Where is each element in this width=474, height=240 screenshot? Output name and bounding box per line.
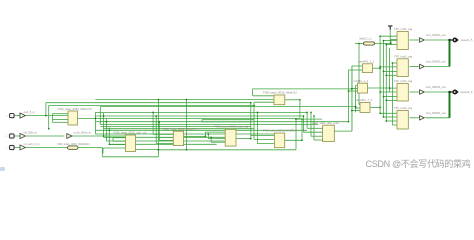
wire [384, 70, 397, 72]
wire [359, 104, 360, 106]
wire [355, 86, 357, 113]
junction [351, 110, 353, 112]
wire [102, 156, 158, 158]
junction [379, 35, 381, 37]
wire [156, 143, 173, 145]
wire (joined output net, thick) [449, 92, 451, 118]
output pin swout1_5 [449, 39, 453, 41]
junction [448, 39, 451, 42]
wire [95, 129, 307, 131]
junction [383, 116, 385, 118]
logic cell U2 FSM_state_0016_dup_cnt [126, 135, 136, 152]
wire [392, 124, 396, 126]
wire [108, 128, 110, 145]
svg-text:FSM_state_0016_dup_cnt: FSM_state_0016_dup_cnt [114, 131, 147, 135]
logic cell U7 FSM_state_dup_out1 [323, 125, 335, 141]
logic cell ST1 FSM_state_0016_WideNor1 [68, 146, 79, 149]
logic cell R1 TFF_inst1_reg [397, 32, 408, 50]
wire [425, 117, 449, 119]
junction [295, 118, 297, 120]
wire [155, 116, 157, 144]
logic cell U9 cnt381_1_1 [358, 83, 368, 93]
svg-text:sw1_5_in: sw1_5_in [24, 110, 36, 114]
wire [368, 87, 390, 89]
wire [211, 141, 225, 143]
junction [152, 112, 154, 114]
junction [186, 149, 188, 151]
logic cell ST2 Mult0_1_1 [364, 42, 375, 45]
wire [109, 143, 216, 145]
watermark [366, 157, 471, 170]
wire [252, 89, 254, 96]
svg-text:TFF_inst4_reg: TFF_inst4_reg [394, 106, 413, 110]
wire [304, 131, 323, 133]
vcc symbol [388, 25, 392, 26]
wire [296, 118, 322, 120]
wire [348, 70, 350, 122]
junction [358, 43, 360, 45]
wire [384, 116, 397, 118]
wire [380, 91, 396, 93]
wire [373, 67, 381, 69]
logic cell U8 wire401_1_1 [363, 64, 373, 73]
wire [202, 119, 254, 121]
wire [352, 88, 358, 90]
logic cell R2 TFF_inst2_reg [397, 59, 408, 77]
junction [385, 44, 387, 46]
wire [46, 102, 251, 104]
wire [384, 96, 397, 98]
junction [205, 136, 207, 138]
wire [100, 124, 318, 126]
wire [386, 74, 396, 76]
junction [158, 99, 160, 101]
wire [14, 115, 19, 117]
svg-text:TFF_inst1_reg: TFF_inst1_reg [394, 27, 413, 31]
wire [14, 147, 19, 149]
buffer T4 [67, 134, 72, 139]
buffer T5 [420, 38, 425, 42]
junction [257, 112, 259, 114]
svg-text:FSM_state_0016_dup_eq1: FSM_state_0016_dup_eq1 [215, 124, 249, 128]
wire [112, 138, 114, 142]
buffer T8 [420, 116, 425, 120]
wire [14, 135, 19, 137]
wire [106, 140, 225, 142]
junction [108, 129, 110, 131]
wire [390, 87, 397, 89]
wire [450, 39, 454, 41]
wire [99, 107, 101, 125]
output pin swout2_6 [449, 91, 453, 93]
wire [379, 36, 381, 113]
wire [72, 135, 126, 137]
blue corner mark [0, 167, 5, 171]
wire [113, 137, 126, 139]
wire [254, 139, 274, 141]
wire [386, 120, 396, 122]
svg-text:FSM_state_0016_WideOr2: FSM_state_0016_WideOr2 [263, 91, 297, 95]
wire [201, 120, 203, 122]
wire [48, 106, 50, 129]
svg-text:inst_SW01_out: inst_SW01_out [426, 33, 446, 37]
svg-text:FSM_state_0016_WideOr0: FSM_state_0016_WideOr0 [58, 107, 92, 111]
buffer T7 [420, 90, 425, 94]
wire [351, 66, 353, 131]
wire [253, 95, 274, 97]
wire [386, 99, 396, 101]
wire [101, 147, 103, 156]
wire [349, 69, 363, 71]
svg-text:TFF_inst2_reg: TFF_inst2_reg [394, 54, 413, 58]
junction [108, 143, 110, 145]
wire [207, 134, 209, 139]
svg-text:a_div_5KHz_w: a_div_5KHz_w [74, 130, 91, 134]
wire [380, 112, 396, 114]
wire [102, 148, 104, 154]
junction [379, 112, 381, 114]
wire [285, 139, 302, 141]
wire [392, 62, 396, 64]
wire [314, 139, 323, 141]
wire [390, 40, 392, 44]
junction [95, 118, 97, 120]
wire [157, 100, 159, 157]
input pin rst_sw1_5_in [10, 145, 15, 149]
wire [410, 91, 419, 93]
svg-text:cnt381_1_1: cnt381_1_1 [354, 79, 369, 83]
svg-text:inst_SW03_out: inst_SW03_out [426, 85, 446, 89]
wire [356, 85, 358, 87]
wire [26, 115, 68, 117]
svg-text:swout2_6: swout2_6 [461, 90, 473, 94]
wire [156, 136, 173, 138]
logic cell R3 TFF_inst3_reg [397, 84, 408, 102]
wire [184, 135, 206, 137]
wire [375, 43, 391, 45]
wire [95, 115, 303, 117]
wire [358, 44, 360, 105]
junction [379, 91, 381, 93]
buffer T3 [20, 145, 25, 150]
junction [210, 136, 212, 138]
logic cell U10 wire401_1_2 [360, 103, 370, 113]
wire [52, 119, 68, 121]
wire [158, 149, 296, 151]
wire [410, 39, 419, 41]
wire [159, 139, 173, 141]
wire [352, 110, 360, 112]
wire [307, 127, 323, 129]
junction [103, 115, 105, 117]
junction [103, 135, 105, 137]
wire [384, 40, 398, 42]
svg-text:FSM_state_0016_WideN0r1: FSM_state_0016_WideN0r1 [57, 142, 90, 146]
wire [236, 138, 251, 140]
junction [45, 115, 47, 117]
logic cell R4 TFF_inst4_reg [397, 111, 408, 130]
wire [310, 112, 312, 136]
buffer T1 [20, 113, 25, 118]
wire [109, 144, 125, 146]
wire [250, 103, 252, 139]
wire [205, 131, 225, 133]
wire [303, 116, 305, 132]
wire [380, 35, 397, 37]
wire [208, 138, 225, 140]
wire [26, 147, 68, 149]
junction [385, 74, 387, 76]
svg-text:wire401_1_1: wire401_1_1 [359, 60, 375, 64]
wire [450, 91, 454, 93]
wire [100, 106, 355, 108]
logic cell U1 FSM_state_0016_WideOr0 [68, 111, 78, 125]
wire [351, 66, 353, 131]
wire [253, 102, 255, 139]
wire [370, 106, 380, 108]
wire [78, 146, 102, 148]
junction [106, 121, 108, 123]
junction [207, 133, 209, 135]
wire [103, 147, 126, 149]
wire [45, 103, 47, 116]
input pin sw1_5_in [10, 114, 15, 118]
wire [334, 130, 352, 132]
junction [155, 115, 157, 117]
wire [26, 135, 65, 137]
junction [351, 88, 353, 90]
wire [100, 126, 251, 128]
svg-text:inst_SW04_out: inst_SW04_out [426, 111, 446, 115]
wire [385, 45, 387, 122]
wire [253, 88, 352, 90]
junction [250, 102, 252, 104]
svg-text:clk_50M_in: clk_50M_in [24, 130, 38, 134]
wire [356, 107, 360, 109]
junction [303, 115, 305, 117]
junction [379, 107, 381, 109]
wire [52, 113, 68, 115]
wire [299, 100, 301, 119]
junction [355, 106, 357, 108]
junction [48, 128, 50, 130]
svg-text:inst_SW02_out: inst_SW02_out [426, 60, 446, 64]
wire [210, 137, 212, 142]
wire [251, 134, 275, 136]
junction [351, 88, 353, 90]
wire [355, 43, 364, 45]
junction [186, 99, 188, 101]
junction [158, 121, 160, 123]
junction [348, 90, 350, 92]
junction [301, 118, 303, 120]
junction [379, 66, 381, 68]
svg-text:swout1_5: swout1_5 [461, 38, 473, 42]
wire [311, 135, 323, 137]
logic cell U4 FSM_state_0016_dup_eq1 [225, 129, 236, 146]
wire [352, 65, 363, 67]
junction [379, 67, 381, 69]
buffer T2 [20, 133, 25, 138]
wire [391, 63, 393, 125]
junction [301, 139, 303, 141]
junction [383, 71, 385, 73]
logic cell U3 FSM_state_0016_WideOr1_i [173, 131, 183, 145]
junction [390, 43, 392, 45]
wire [425, 39, 449, 41]
wire [95, 133, 274, 135]
input pin clk_50M_in [10, 134, 15, 138]
wire [202, 121, 251, 123]
junction [253, 105, 255, 107]
logic cell U5 FSM_state_0016_WideOr2 [274, 95, 285, 105]
wire [257, 112, 259, 143]
wire [104, 128, 254, 130]
svg-text:FSM_state_dup_out1: FSM_state_dup_out1 [312, 121, 339, 125]
wire [95, 121, 348, 123]
wire [95, 99, 274, 101]
wire [349, 90, 358, 92]
wire [78, 117, 96, 119]
wire [103, 113, 105, 137]
wire [389, 27, 391, 45]
junction [158, 149, 160, 151]
wire (joined output net, thick) [449, 40, 451, 67]
wire [204, 132, 206, 136]
wire [391, 39, 397, 41]
wire [185, 100, 187, 150]
wire [254, 101, 274, 103]
wire [380, 66, 396, 68]
junction [310, 112, 312, 114]
wire [158, 122, 160, 141]
junction [392, 62, 394, 64]
junction [383, 40, 385, 42]
wire [410, 117, 419, 119]
buffer T6 [420, 64, 425, 68]
svg-text:Mult0_1_1: Mult0_1_1 [360, 36, 373, 40]
wire [258, 143, 275, 145]
wire [95, 118, 300, 120]
wire [152, 112, 154, 134]
wire [113, 140, 126, 142]
logic cell U6 FSM_state_0016_WideOr3 [274, 133, 284, 148]
wire [301, 119, 303, 140]
wire [295, 119, 297, 150]
svg-text:TFF_inst3_reg: TFF_inst3_reg [394, 79, 413, 83]
wire [104, 136, 226, 138]
junction [306, 112, 308, 114]
junction [250, 138, 252, 140]
wire [285, 99, 300, 101]
junction [383, 96, 385, 98]
junction [348, 121, 350, 123]
svg-text:FSM_state_0016_WideOr1_i: FSM_state_0016_WideOr1_i [163, 127, 199, 131]
junction [385, 120, 387, 122]
wire [425, 91, 449, 93]
junction [355, 107, 357, 109]
junction [448, 91, 451, 94]
svg-text:wire401_1_2: wire401_1_2 [356, 98, 372, 102]
wire [383, 41, 385, 117]
junction [385, 100, 387, 102]
wire [306, 112, 308, 128]
wire [425, 66, 449, 68]
wire [410, 66, 419, 68]
wire [386, 44, 397, 46]
svg-text:rst_sw1_5_in: rst_sw1_5_in [24, 142, 40, 146]
junction [313, 115, 315, 117]
wire [95, 111, 307, 113]
wire [49, 105, 254, 107]
wire [94, 112, 96, 134]
wire [313, 116, 315, 140]
junction [389, 87, 391, 89]
wire [389, 48, 391, 92]
junction [158, 149, 160, 151]
wire [52, 121, 68, 123]
wire [136, 149, 159, 151]
wire [153, 133, 173, 135]
wire [105, 119, 107, 141]
junction [299, 99, 301, 101]
wire [51, 114, 53, 123]
